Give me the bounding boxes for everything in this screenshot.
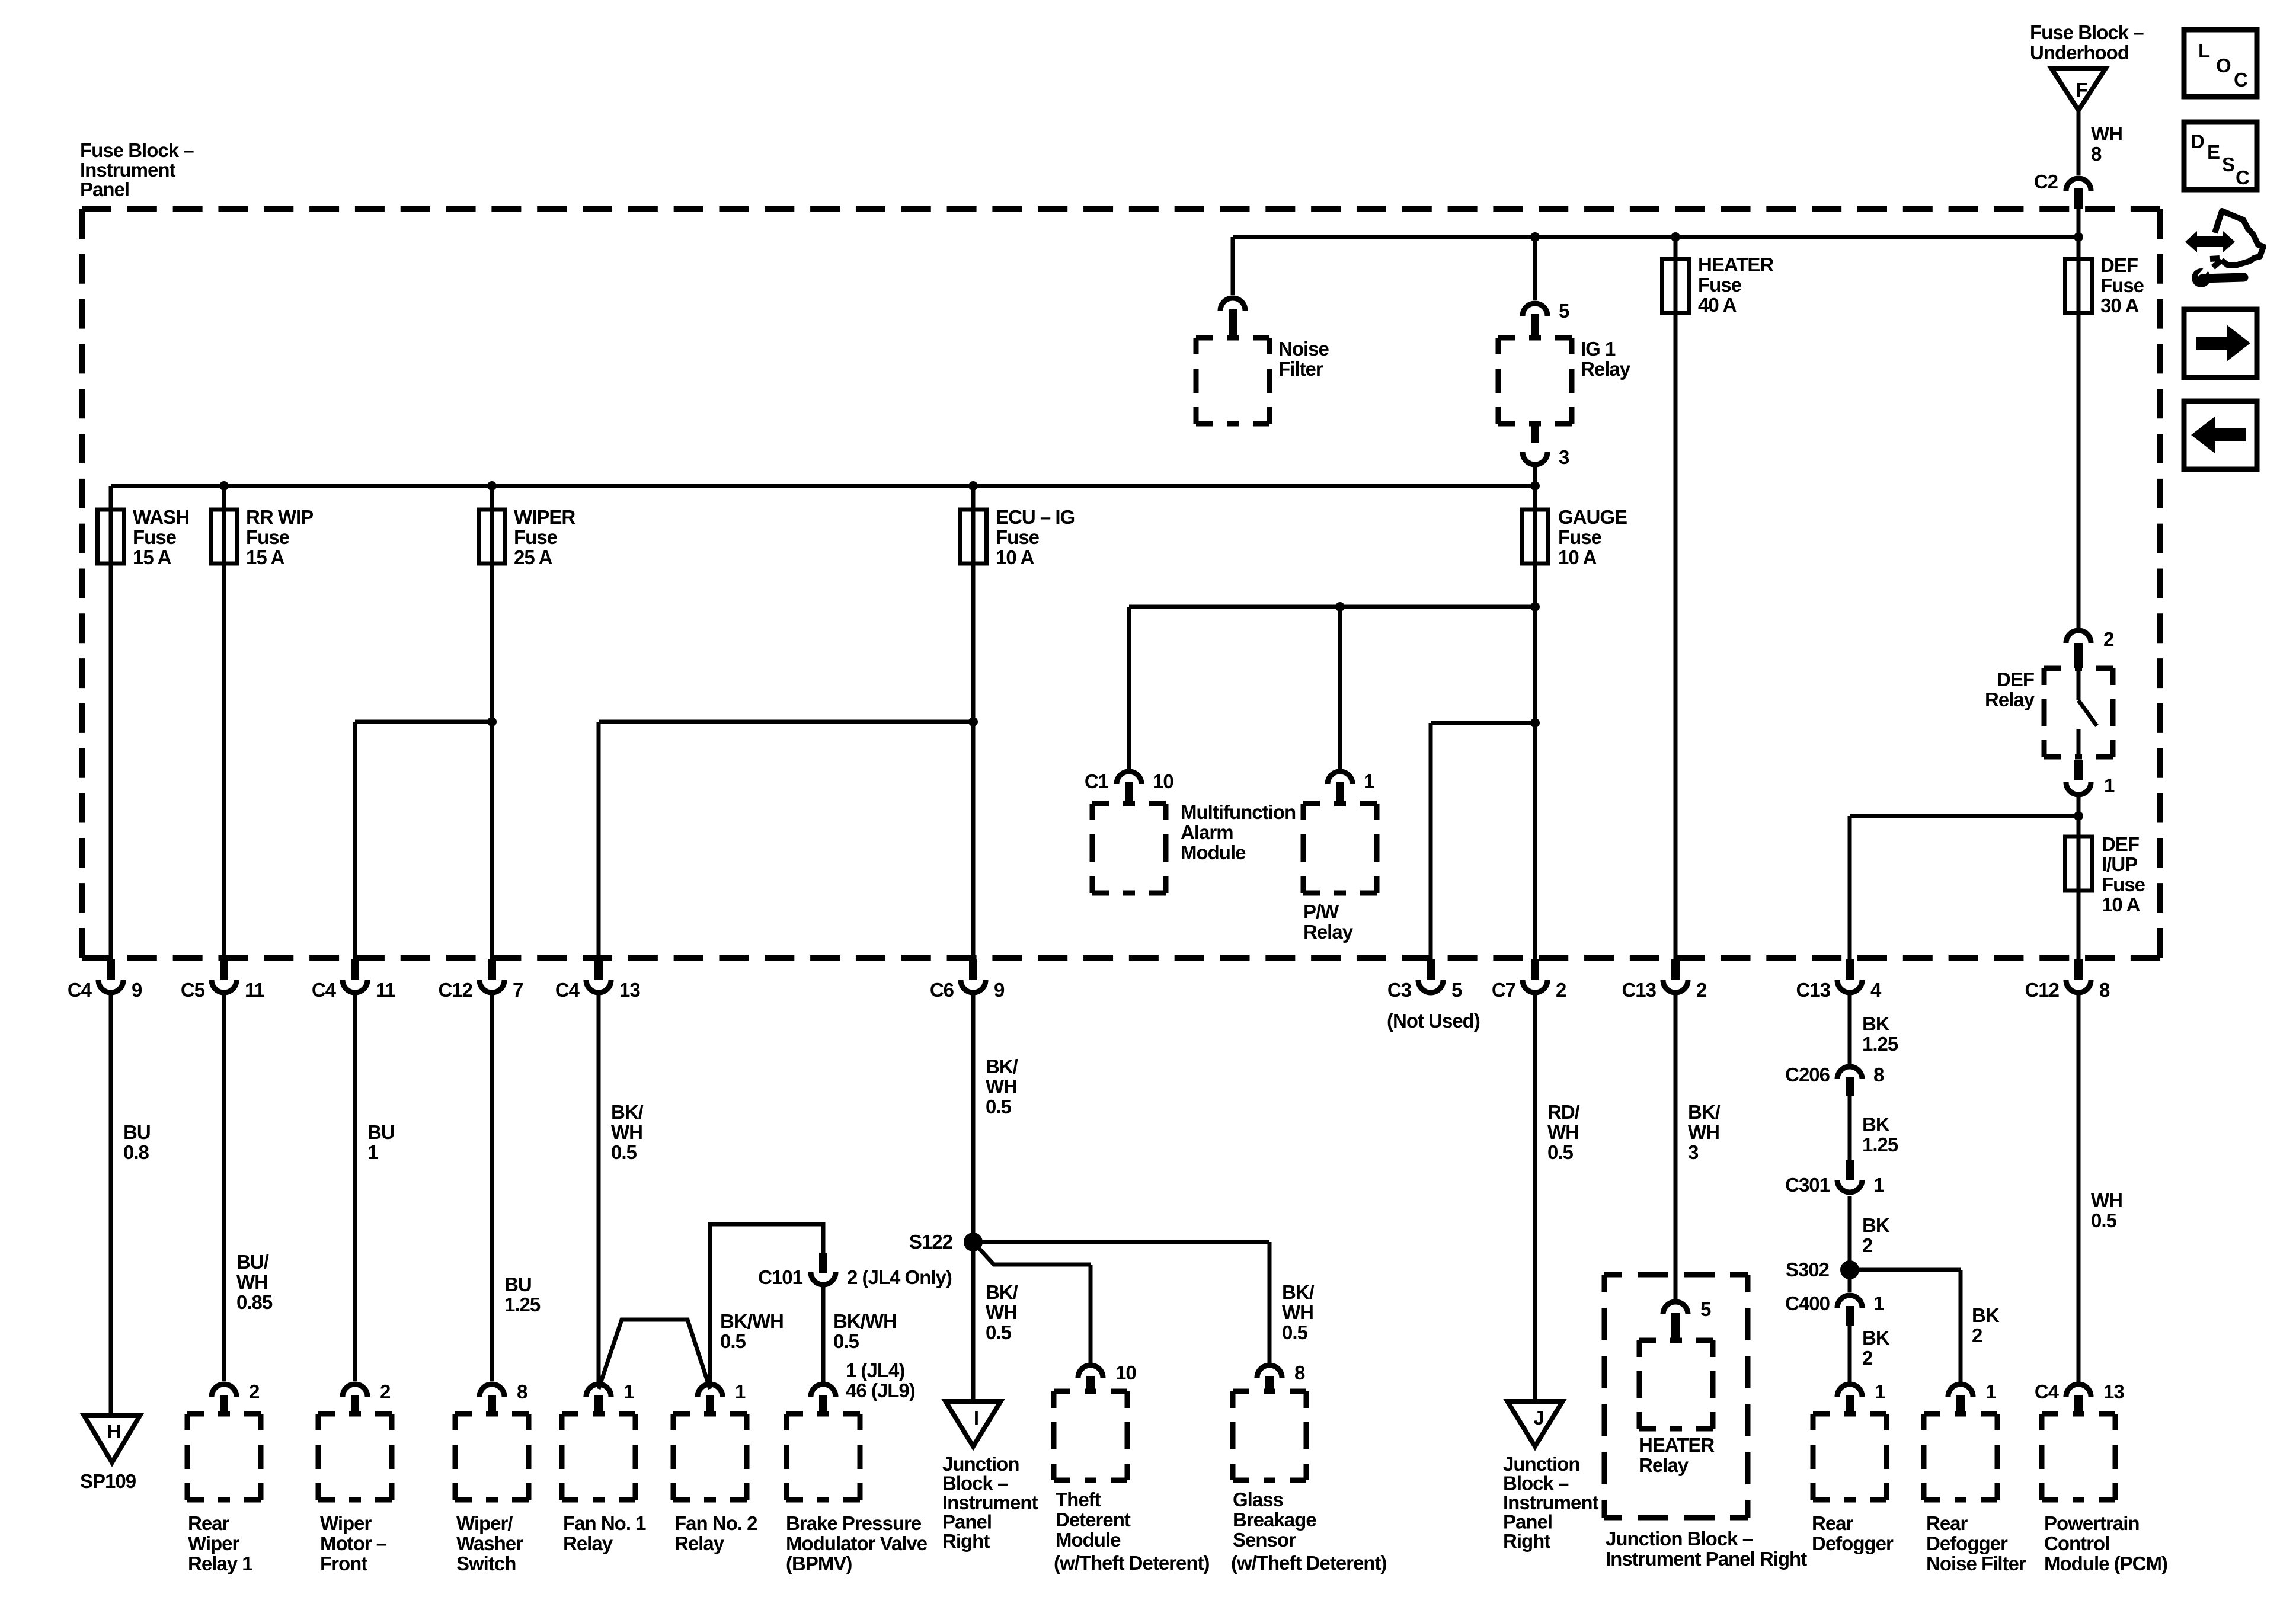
svg-text:2 (JL4 Only): 2 (JL4 Only) [847,1266,952,1288]
svg-text:BK/WH: BK/WH [720,1310,784,1332]
svg-text:0.5: 0.5 [1547,1141,1574,1163]
fuse WASH 15A [98,510,124,564]
connector C12 pin 7 [488,959,496,980]
svg-text:C7: C7 [1492,979,1515,1001]
theft deterrent module pin 10 [1078,1365,1103,1378]
svg-text:1: 1 [1873,1292,1884,1314]
svg-text:L: L [2198,40,2210,62]
svg-text:BK/: BK/ [1282,1281,1315,1303]
wire ECU-IG column [971,486,976,977]
wire top bus [1233,235,2078,239]
svg-text:BK: BK [1862,1113,1890,1135]
svg-text:10: 10 [1153,770,1173,792]
svg-text:DEF: DEF [2102,833,2139,855]
svg-text:E: E [2207,141,2220,163]
svg-text:GAUGE: GAUGE [1558,506,1627,528]
svg-text:Rear: Rear [1926,1512,1968,1534]
svg-text:C13: C13 [1622,979,1656,1001]
svg-text:30 A: 30 A [2100,295,2139,316]
svg-text:RR WIP: RR WIP [246,506,313,528]
svg-text:13: 13 [2103,1381,2124,1403]
svg-text:Panel: Panel [80,178,129,200]
svg-text:10 A: 10 A [2102,894,2140,916]
fan no 1 relay pin 1 [586,1384,611,1397]
svg-text:Control: Control [2044,1532,2109,1554]
svg-text:C206: C206 [1785,1064,1830,1086]
svg-text:Fan No. 1: Fan No. 1 [563,1512,646,1534]
svg-text:Instrument: Instrument [1503,1491,1599,1513]
junction ECU-IG mid [968,717,978,726]
fuse GAUGE 10A [1522,510,1549,564]
svg-text:S122: S122 [909,1231,953,1253]
svg-text:WH: WH [1282,1301,1313,1323]
fan no 2 relay box [673,1414,747,1500]
connector C13 pin 2 [1671,959,1680,980]
wire C13-2 to heater relay [1674,994,1678,1299]
svg-text:Relay: Relay [1303,921,1354,943]
icon service tools [2185,231,2235,252]
noise filter pin connector [1220,298,1245,311]
svg-text:Right: Right [942,1530,990,1552]
svg-text:0.5: 0.5 [2091,1209,2117,1231]
svg-text:WH: WH [1688,1121,1719,1143]
svg-text:Fuse: Fuse [2100,274,2144,296]
svg-text:Panel: Panel [942,1511,992,1533]
wire C12-8 to PCM [2077,994,2081,1382]
connector C2 [2066,178,2091,191]
svg-text:1: 1 [367,1141,378,1163]
svg-text:0.5: 0.5 [720,1330,746,1352]
wire S122 to glass sensor [973,1240,1269,1244]
junction block box [1604,1275,1748,1518]
svg-text:2: 2 [380,1381,391,1403]
svg-text:C12: C12 [438,979,472,1001]
wire GAUGE column [1533,486,1537,977]
rear defogger noise filter pin 1 [1948,1384,1973,1397]
svg-text:Noise: Noise [1278,338,1329,360]
svg-text:Sensor: Sensor [1233,1529,1296,1551]
wire glass sensor drop [1268,1242,1272,1363]
wire C13-4 to C206 [1848,994,1852,1064]
glass breakage sensor pin 8 [1257,1365,1282,1378]
svg-text:1: 1 [1875,1381,1885,1403]
wire RR WIP column [222,486,226,977]
wire HEATER column [1674,237,1678,977]
svg-text:Deterent: Deterent [1056,1509,1131,1531]
svg-text:Fuse: Fuse [1698,274,1742,296]
svg-text:C4: C4 [2035,1381,2060,1403]
fuse DEF I/UP 10A [2065,837,2092,891]
svg-text:(w/Theft Deterent): (w/Theft Deterent) [1231,1552,1387,1574]
svg-text:Relay: Relay [1581,358,1631,380]
svg-text:Fuse: Fuse [514,526,558,548]
svg-text:C4: C4 [555,979,580,1001]
svg-text:1.25: 1.25 [504,1294,541,1315]
junction HEATER top [1671,232,1680,242]
svg-text:Fuse Block –: Fuse Block – [2030,21,2144,43]
svg-text:Rear: Rear [1812,1512,1854,1534]
junction DEF relay out [2074,811,2083,821]
bpmv pin [811,1384,836,1397]
svg-text:WH: WH [986,1076,1017,1097]
svg-text:1.25: 1.25 [1862,1033,1898,1055]
svg-text:1: 1 [1985,1381,1996,1403]
pcm connector C4 pin 13 [2066,1384,2091,1397]
svg-text:0.5: 0.5 [986,1096,1012,1118]
noise filter box [1196,338,1269,424]
P/W relay box [1303,804,1377,893]
svg-text:2: 2 [2103,628,2114,650]
junction GAUGE C3 [1530,718,1540,728]
svg-text:Instrument: Instrument [80,159,176,181]
svg-text:Breakage: Breakage [1233,1509,1316,1531]
svg-text:2: 2 [1862,1347,1873,1369]
wire S122 to theft module [973,1242,1091,1265]
svg-text:C101: C101 [758,1266,803,1288]
svg-text:11: 11 [245,979,265,1001]
fan no 2 relay pin 1 [698,1384,722,1397]
wire branch C3-5 to GAUGE [1431,721,1535,725]
svg-text:ECU – IG: ECU – IG [996,506,1075,528]
svg-text:HEATER: HEATER [1639,1434,1715,1456]
svg-text:BU/: BU/ [236,1251,269,1273]
rear wiper relay box [187,1414,261,1500]
wire C4-13 to fan1 [597,994,601,1382]
wire branch C4-13 to ECU-IG [599,720,973,724]
fuse HEATER 40A [1662,259,1689,313]
wire IG1 pin5 drop [1533,237,1537,300]
P/W relay pin 1 connector [1328,772,1352,784]
svg-text:0.5: 0.5 [833,1330,859,1352]
svg-text:C2: C2 [2034,171,2058,193]
wire C301 to S302 [1848,1196,1852,1292]
icon DESC box [2184,122,2257,190]
wire fuse bus [111,484,1535,488]
svg-text:WIPER: WIPER [514,506,575,528]
wire P/W relay drop [1338,607,1342,769]
svg-text:1: 1 [623,1381,634,1403]
svg-text:Defogger: Defogger [1926,1532,2008,1554]
svg-text:Junction: Junction [942,1453,1019,1475]
svg-text:Front: Front [320,1553,367,1574]
svg-text:1 (JL4): 1 (JL4) [846,1359,904,1381]
wire DEF pin1 to C12-8 [2077,796,2081,977]
svg-text:9: 9 [132,979,142,1001]
svg-text:40 A: 40 A [1698,294,1737,316]
svg-text:Fuse: Fuse [246,526,290,548]
off-page connector H triangle [84,1416,140,1462]
wire F to C2 [2077,110,2081,175]
svg-text:P/W: P/W [1303,901,1339,923]
icon prev arrow box [2184,401,2257,469]
wire noise filter drop [1231,237,1235,295]
svg-text:Fuse: Fuse [2102,873,2145,895]
svg-text:C400: C400 [1785,1292,1830,1314]
svg-text:O: O [2216,55,2231,76]
svg-text:Fuse: Fuse [133,526,177,548]
svg-text:1.25: 1.25 [1862,1134,1898,1156]
svg-text:5: 5 [1700,1298,1711,1320]
svg-text:WH: WH [2091,1189,2122,1211]
svg-text:Glass: Glass [1233,1489,1283,1510]
heater relay pin 5 [1663,1302,1688,1314]
icon LOC box [2184,30,2257,97]
svg-text:25 A: 25 A [514,546,552,568]
svg-text:Switch: Switch [456,1553,516,1574]
wiper motor box [318,1414,392,1500]
svg-text:IG 1: IG 1 [1581,338,1616,360]
wire C5-11 to rear wiper relay [222,994,226,1381]
junction WIPER bus [487,481,497,491]
svg-text:Panel: Panel [1503,1511,1552,1533]
svg-text:Alarm: Alarm [1181,821,1233,843]
svg-text:DEF: DEF [2100,254,2138,276]
svg-text:Fan No. 2: Fan No. 2 [674,1512,757,1534]
svg-text:BU: BU [367,1121,395,1143]
fuse WIPER 25A [479,510,506,564]
svg-text:BK/: BK/ [1688,1101,1721,1123]
svg-text:Block –: Block – [942,1473,1008,1494]
theft deterrent module box [1054,1391,1127,1480]
fuse block instrument panel dashed border [82,206,2160,212]
wire C4-11 to wiper motor [353,994,357,1381]
svg-text:8: 8 [2091,143,2102,165]
svg-text:C4: C4 [312,979,337,1001]
wire branch C13-4 to DEF [1850,814,2078,818]
svg-text:(w/Theft Deterent): (w/Theft Deterent) [1054,1552,1210,1574]
svg-text:(BPMV): (BPMV) [786,1553,852,1574]
rear defogger pin 1 [1837,1384,1862,1397]
svg-text:3: 3 [1688,1141,1699,1163]
svg-text:15 A: 15 A [246,546,284,568]
svg-text:0.5: 0.5 [611,1141,637,1163]
svg-text:WH: WH [236,1271,268,1293]
wire WIPER column [490,486,494,977]
DEF relay box [2044,668,2113,757]
svg-text:Wiper/: Wiper/ [456,1512,513,1534]
IG1 relay pin 5 connector [1523,303,1547,316]
svg-text:Theft: Theft [1056,1489,1101,1510]
svg-text:Instrument: Instrument [942,1491,1038,1513]
svg-text:Instrument Panel Right: Instrument Panel Right [1606,1548,1807,1570]
svg-text:C301: C301 [1785,1174,1830,1196]
off-page connector J triangle [1508,1401,1563,1446]
connector C3 pin 5 [1427,959,1435,980]
wire C4-11 column [353,722,357,977]
svg-text:2: 2 [249,1381,260,1403]
svg-text:Brake Pressure: Brake Pressure [786,1512,922,1534]
svg-text:BU: BU [123,1121,151,1143]
wiper washer switch pin 8 [479,1384,504,1397]
svg-text:Module: Module [1181,841,1246,863]
svg-text:S302: S302 [1786,1259,1830,1281]
svg-text:WH: WH [1547,1121,1579,1143]
svg-text:Relay: Relay [563,1532,613,1554]
svg-text:1: 1 [1364,770,1374,792]
svg-text:1: 1 [1873,1174,1884,1196]
svg-text:C: C [2234,69,2247,91]
svg-text:10 A: 10 A [996,546,1034,568]
wire C400 to rear defogger [1848,1326,1852,1382]
svg-text:J: J [1533,1407,1543,1429]
svg-text:Multifunction: Multifunction [1181,801,1296,823]
connector C13 pin 4 [1846,959,1854,980]
svg-text:C4: C4 [68,979,92,1001]
bpmv box [786,1414,860,1500]
rear wiper relay 1 pin 2 [212,1384,236,1397]
junction P/W [1335,602,1345,612]
svg-text:Relay: Relay [1985,689,2035,710]
svg-text:2: 2 [1556,979,1566,1001]
off-page connector I triangle [946,1401,1001,1446]
connector C6 pin 9 [969,959,977,980]
svg-text:BK: BK [1862,1214,1890,1236]
wire C206 to C301 [1848,1096,1852,1161]
pcm box [2042,1414,2115,1500]
wire fan2 to C101 [710,1224,823,1383]
wire WASH below connector [109,994,113,1420]
wire fan branch trapezoid [599,1320,710,1389]
svg-text:Junction: Junction [1503,1453,1580,1475]
svg-text:I: I [974,1407,978,1429]
svg-text:Module: Module [1056,1529,1121,1551]
rear defogger noise filter box [1924,1414,1997,1500]
svg-text:Relay 1: Relay 1 [188,1553,252,1574]
svg-text:Fuse Block –: Fuse Block – [80,139,194,161]
svg-text:1: 1 [735,1381,746,1403]
svg-text:Rear: Rear [188,1512,230,1534]
splice S122 [964,1233,983,1251]
svg-text:3: 3 [1559,446,1569,468]
junction IG1 top [1530,232,1540,242]
svg-text:D: D [2191,130,2204,152]
svg-text:BK: BK [1862,1327,1890,1349]
svg-text:Noise Filter: Noise Filter [1926,1553,2026,1574]
junction WIPER mid [487,717,497,726]
fuse DEF 30A [2065,259,2092,313]
wire C101 to BPMV [821,1287,826,1382]
svg-text:C6: C6 [930,979,954,1001]
svg-text:S: S [2222,153,2234,175]
off-page connector F triangle [2051,68,2106,110]
svg-text:Fuse: Fuse [996,526,1040,548]
connector C4 pin 9 [107,959,115,980]
svg-text:(Not Used): (Not Used) [1387,1010,1480,1032]
svg-text:Wiper: Wiper [188,1532,240,1554]
svg-text:Wiper: Wiper [320,1512,372,1534]
svg-text:SP109: SP109 [80,1470,136,1492]
svg-text:10: 10 [1115,1362,1136,1384]
wire theft module drop [1089,1265,1093,1363]
svg-text:46 (JL9): 46 (JL9) [846,1379,915,1401]
svg-text:F: F [2076,79,2087,101]
wiper washer switch box [455,1414,529,1500]
svg-text:C: C [2236,167,2249,188]
svg-text:WH: WH [2091,123,2122,145]
svg-text:7: 7 [513,979,523,1001]
svg-text:BK/: BK/ [986,1281,1018,1303]
DEF relay switch [2077,671,2081,700]
svg-text:Powertrain: Powertrain [2044,1512,2140,1534]
svg-text:8: 8 [1294,1362,1305,1384]
svg-text:8: 8 [2099,979,2110,1001]
svg-text:Defogger: Defogger [1812,1532,1894,1554]
wire C1 riser [1127,607,1131,769]
svg-text:1: 1 [2104,774,2115,796]
wire IG1 pin3 to bus [1533,467,1537,486]
svg-text:Module (PCM): Module (PCM) [2044,1553,2167,1574]
svg-text:13: 13 [619,979,640,1001]
icon next arrow box [2184,309,2257,377]
wire C3-5 column [1429,723,1433,977]
connector C4 pin 13 [594,959,603,980]
fuse RR WIP 15A [211,510,238,564]
wire alarm bus [1129,605,1535,609]
multifunction alarm module box [1092,804,1166,893]
connector C400 pin 1 [1837,1295,1862,1308]
svg-text:5: 5 [1559,300,1569,322]
junction GAUGE bus [1530,481,1540,491]
svg-text:C12: C12 [2025,979,2059,1001]
connector C1 pin 10 [1117,772,1141,784]
svg-text:Modulator Valve: Modulator Valve [786,1532,928,1554]
svg-text:I/UP: I/UP [2102,853,2137,875]
svg-text:WASH: WASH [133,506,189,528]
wire WASH column [109,486,113,977]
wire S302 to noise filter [1850,1268,1961,1272]
splice S302 [1840,1260,1859,1279]
junction ECU-IG bus [968,481,978,491]
svg-text:HEATER: HEATER [1698,254,1774,276]
svg-text:0.5: 0.5 [1282,1321,1308,1343]
svg-text:5: 5 [1451,979,1462,1001]
svg-text:RD/: RD/ [1547,1101,1580,1123]
junction RR WIP bus [219,481,229,491]
svg-text:Motor –: Motor – [320,1532,387,1554]
wire C12-7 to washer switch [490,994,494,1381]
wire C7-2 to junction J [1533,994,1537,1406]
svg-text:Relay: Relay [1639,1454,1689,1476]
svg-text:C1: C1 [1085,770,1109,792]
svg-text:Fuse: Fuse [1558,526,1602,548]
wiper motor pin 2 [343,1384,367,1397]
heater relay box [1639,1340,1713,1429]
svg-text:C13: C13 [1796,979,1830,1001]
glass breakage sensor box [1233,1391,1306,1480]
rear defogger box [1813,1414,1886,1500]
connector C5 pin 11 [220,959,228,980]
wire C13-4 column [1848,816,1852,977]
IG1 relay box [1498,338,1572,424]
DEF relay pin 2 connector [2066,630,2091,643]
svg-text:Junction Block –: Junction Block – [1606,1528,1753,1550]
svg-text:4: 4 [1870,979,1882,1001]
svg-text:BU: BU [504,1273,532,1295]
svg-text:BK: BK [1972,1304,2000,1326]
fuse ECU-IG 10A [960,510,987,564]
svg-text:0.8: 0.8 [123,1141,149,1163]
svg-text:C3: C3 [1387,979,1412,1001]
svg-text:Washer: Washer [456,1532,523,1554]
svg-text:2: 2 [1696,979,1707,1001]
svg-text:Relay: Relay [674,1532,725,1554]
svg-text:11: 11 [376,979,396,1001]
svg-text:10 A: 10 A [1558,546,1597,568]
junction DEF top [2074,232,2083,242]
connector C7 pin 2 [1531,959,1539,980]
svg-text:H: H [107,1420,121,1442]
svg-text:Block –: Block – [1503,1473,1569,1494]
